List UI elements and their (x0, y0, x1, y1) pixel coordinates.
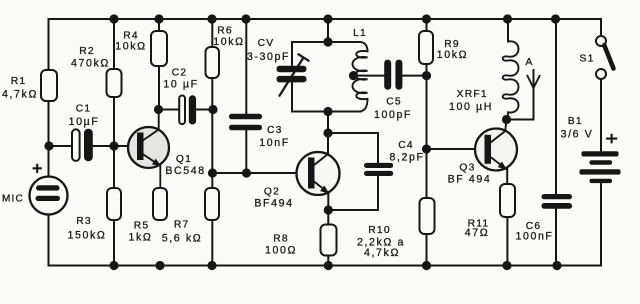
node Q3 base (422, 144, 431, 153)
microphone MIC (30, 177, 68, 215)
svg-text:BF494: BF494 (254, 197, 293, 209)
svg-text:CV: CV (258, 38, 275, 49)
resistor R10 (420, 198, 435, 234)
svg-text:1kΩ: 1kΩ (129, 231, 153, 243)
svg-text:C4: C4 (398, 140, 414, 151)
svg-text:4,7kΩ: 4,7kΩ (364, 247, 400, 259)
wire L1 tap to C5 (354, 75, 427, 77)
resistor R4 (151, 31, 167, 66)
label plus battery (606, 134, 617, 144)
wire Q2 collector column (327, 112, 329, 155)
svg-text:8,2pF: 8,2pF (389, 151, 424, 163)
svg-text:10µF: 10µF (69, 116, 100, 128)
svg-text:R2: R2 (79, 46, 95, 57)
svg-text:BC548: BC548 (165, 165, 205, 177)
svg-text:L1: L1 (353, 28, 367, 39)
svg-text:R10: R10 (368, 225, 391, 236)
svg-text:100pF: 100pF (374, 109, 412, 121)
wire tank bottom (292, 111, 361, 113)
svg-text:R8: R8 (273, 233, 289, 244)
wire C4 branch bottom (329, 176, 379, 210)
svg-text:100 µH: 100 µH (449, 101, 493, 113)
switch S1 (596, 36, 614, 79)
wire CV branch (291, 42, 293, 112)
capacitor C4 (364, 163, 393, 176)
svg-text:B1: B1 (568, 116, 583, 127)
antenna A (527, 75, 540, 88)
wire R7 column (211, 173, 213, 266)
svg-text:Q3: Q3 (459, 163, 475, 174)
wire Q2 emitter to R8 (327, 194, 329, 225)
resistor R6 (206, 47, 220, 78)
wire R3 column (113, 146, 115, 266)
svg-text:R7: R7 (174, 220, 190, 231)
wire left column R1/MIC (48, 19, 50, 266)
resistor R9 (419, 31, 433, 64)
capacitor CV (trimmer) (277, 54, 310, 97)
svg-text:C1: C1 (76, 104, 92, 115)
svg-text:Q2: Q2 (264, 186, 280, 197)
svg-text:XRF1: XRF1 (457, 89, 488, 100)
capacitor C5 (384, 60, 402, 90)
svg-text:10 µF: 10 µF (163, 78, 198, 90)
wire Q3 emitter to R11 (506, 168, 508, 184)
svg-text:3/6 V: 3/6 V (561, 128, 594, 140)
svg-text:C2: C2 (172, 68, 188, 79)
node top rail dots (109, 14, 118, 23)
wire R4 column (158, 19, 160, 110)
svg-text:100nF: 100nF (515, 231, 553, 243)
inductor XRF1 (503, 41, 519, 119)
resistor R3 (107, 188, 121, 220)
inductor L1 (353, 42, 368, 112)
capacitor C1 (electrolytic) (72, 129, 93, 161)
transistor Q2 (297, 140, 340, 195)
wire bottom rail (49, 265, 602, 267)
resistor R2 (107, 69, 122, 97)
svg-text:10kΩ: 10kΩ (437, 49, 468, 61)
node tank top/bottom (323, 37, 332, 46)
svg-text:BF 494: BF 494 (448, 173, 492, 185)
svg-text:R6: R6 (217, 26, 233, 37)
svg-text:10kΩ: 10kΩ (213, 36, 244, 48)
wire Q3 base row (427, 148, 485, 150)
wire antenna mast (533, 70, 535, 120)
wire Q2 base row (212, 172, 308, 174)
resistor R8 (321, 225, 337, 256)
label plus MIC (33, 164, 42, 173)
resistor R1 (41, 70, 57, 101)
svg-text:470kΩ: 470kΩ (71, 58, 110, 70)
wire R2 column (113, 19, 115, 146)
svg-text:R1: R1 (11, 76, 27, 87)
wire C1 row: node to C1, C1 to Q1 base (49, 145, 137, 147)
wire C3 column (245, 19, 247, 173)
svg-text:10nF: 10nF (259, 137, 290, 149)
capacitor C3 (229, 114, 262, 130)
wire switch battery column (600, 19, 602, 266)
node Q2 emitter (324, 205, 333, 214)
wire C4 branch top (328, 133, 378, 163)
capacitor C2 (electrolytic) (179, 95, 196, 124)
svg-text:R3: R3 (76, 216, 92, 227)
transistor Q1 (128, 110, 169, 189)
svg-text:C5: C5 (386, 96, 402, 107)
svg-text:5,6 kΩ: 5,6 kΩ (162, 233, 203, 245)
node bottom rail dots (109, 261, 118, 270)
svg-text:S1: S1 (580, 53, 595, 64)
svg-text:Q1: Q1 (176, 154, 192, 165)
wire R8 to rail (327, 256, 329, 266)
node L1 tap / C5 right (349, 71, 358, 80)
capacitor C6 (542, 194, 573, 209)
resistor R7 (205, 188, 219, 220)
wire XRF1 drop (507, 19, 509, 42)
node C1/R2 (44, 141, 53, 150)
svg-text:10kΩ: 10kΩ (115, 40, 146, 52)
svg-text:MIC: MIC (2, 193, 24, 204)
wire R10 column (426, 149, 428, 266)
svg-text:150kΩ: 150kΩ (68, 230, 107, 242)
wire antenna row (507, 119, 534, 121)
wire R9 column (426, 19, 428, 149)
node XRF1 bottom (502, 115, 511, 124)
node base row Q2 (208, 168, 217, 177)
wire tank rail drop (327, 19, 329, 42)
wire tank top (292, 41, 359, 43)
svg-text:47Ω: 47Ω (465, 227, 490, 239)
wire R11 to rail (506, 217, 508, 266)
svg-text:A: A (525, 57, 533, 68)
svg-text:3-30pF: 3-30pF (247, 51, 290, 63)
svg-text:R5: R5 (134, 221, 150, 232)
svg-text:C3: C3 (267, 125, 283, 136)
resistor R11 (500, 184, 515, 217)
resistor R5 (153, 188, 167, 220)
node C2 row (154, 105, 163, 114)
battery B1 (580, 151, 621, 183)
wire C6 column (555, 19, 557, 266)
wire top rail (49, 18, 602, 20)
svg-text:100Ω: 100Ω (265, 245, 297, 257)
svg-text:4,7kΩ: 4,7kΩ (2, 88, 38, 100)
transistor Q3 (475, 121, 517, 171)
wire R6 column (211, 19, 213, 173)
wire C2 row (159, 109, 214, 111)
